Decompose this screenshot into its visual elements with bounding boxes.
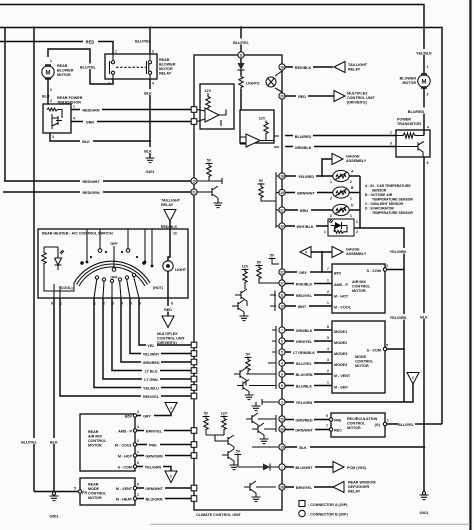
connector squares on left edge (rear motor wires) [191, 428, 197, 434]
wire GRN/RED row to recirculation FRE [285, 419, 331, 421]
sensor A (in-car temperature) [333, 170, 349, 181]
svg-text:ASSEMBLY: ASSEMBLY [346, 252, 367, 256]
pin 21 circle (BRN) [279, 207, 285, 213]
wire LT GRN row (switch pin 2) [103, 298, 191, 379]
pin 17 circle PNK/BLK [279, 280, 285, 286]
svg-text:OFF: OFF [110, 242, 118, 246]
svg-text:1: 1 [350, 197, 352, 201]
label BLU/YEL (relay pin 2 drop) [135, 37, 153, 43]
svg-text:BRN/WHT: BRN/WHT [297, 191, 315, 195]
svg-text:5: 5 [386, 344, 388, 348]
svg-text:9: 9 [281, 372, 283, 376]
svg-text:3: 3 [327, 358, 329, 362]
wire BLK vertical to G501 (switch pin 9) [53, 298, 55, 495]
svg-text:4: 4 [281, 361, 283, 365]
svg-text:6: 6 [281, 384, 283, 388]
svg-text:YEL/BLK: YEL/BLK [416, 51, 432, 55]
switch wiper contact circles [95, 276, 98, 279]
svg-text:MULTIPLEX: MULTIPLEX [157, 332, 178, 336]
pin 25 circle GRN/RED [279, 416, 285, 422]
svg-text:22: 22 [280, 270, 284, 274]
svg-text:5V: 5V [236, 450, 241, 454]
svg-text:2: 2 [330, 197, 332, 201]
wire trunk line 3 (RED feed to relay) [0, 42, 113, 55]
svg-text:BLK: BLK [420, 315, 428, 319]
wire BLU to rear power transistor [47, 79, 49, 104]
legend connector B [299, 510, 305, 516]
svg-text:G401: G401 [419, 511, 428, 515]
arrow 4 (front GRY link) [300, 247, 311, 258]
svg-text:A : IN - CAR TEMPERATURE: A : IN - CAR TEMPERATURE [365, 184, 411, 188]
svg-text:BLK: BLK [299, 446, 307, 450]
svg-text:S - COM: S - COM [367, 349, 381, 353]
svg-text:7: 7 [326, 424, 328, 428]
lamp loop between pins 18 and 20 [275, 71, 282, 92]
svg-text:MODE2: MODE2 [334, 341, 347, 345]
svg-text:1: 1 [327, 381, 329, 385]
pin 16 circle (YEL/RED) [279, 173, 285, 179]
switch rotary arc [74, 261, 150, 283]
svg-text:REAR WINDOW: REAR WINDOW [348, 481, 376, 485]
svg-text:BLU/YEL: BLU/YEL [80, 66, 97, 70]
wire BLU/YEL recirculation row [387, 423, 442, 425]
svg-text:AMS - P: AMS - P [334, 283, 348, 287]
svg-text:YEL/GRN: YEL/GRN [390, 316, 407, 320]
sensor D (evaporator temperature) [333, 204, 349, 215]
svg-text:: CONNECTOR A (20P): : CONNECTOR A (20P) [308, 503, 348, 507]
svg-text:LT GRN/BLK: LT GRN/BLK [293, 351, 315, 355]
pin 5 circle LT GRN/BLK [279, 349, 285, 355]
pin 20 circle (WHT/BLK) [279, 223, 285, 229]
wire PNK/BLK row [285, 283, 332, 285]
wire ORN/BLK row to power transistor pin 3 [285, 146, 396, 148]
svg-text:GRN/RED: GRN/RED [295, 418, 312, 422]
rear mode control motor M3 [80, 478, 135, 505]
svg-text:2: 2 [427, 93, 429, 97]
svg-text:GAUGE: GAUGE [346, 155, 360, 159]
svg-text:RELAY: RELAY [159, 72, 172, 76]
svg-text:1: 1 [350, 214, 352, 218]
svg-text:ORN/WHT: ORN/WHT [145, 487, 163, 491]
svg-text:21: 21 [192, 190, 196, 194]
svg-text:CONTROL: CONTROL [88, 439, 107, 443]
climate control unit box [194, 55, 282, 510]
recirculation control motor [331, 413, 385, 437]
svg-text:M - HOT: M - HOT [334, 295, 349, 299]
wire RED/BLK row to taillight relay [285, 66, 333, 68]
svg-text:(COOL): (COOL) [59, 286, 73, 290]
svg-text:BLK: BLK [144, 92, 152, 96]
wire YEL/BLU row (switch pin 1) [94, 298, 191, 388]
svg-text:MODE3: MODE3 [334, 352, 347, 356]
taillight relay arrow (front) [334, 62, 345, 73]
connector squares on left edge (rear transistor wires) [191, 107, 197, 113]
svg-text:18: 18 [280, 65, 284, 69]
svg-text:2: 2 [152, 50, 154, 54]
svg-text:M - HOT: M - HOT [118, 455, 133, 459]
svg-text:2: 2 [356, 230, 358, 234]
svg-text:BRN/YEL: BRN/YEL [296, 486, 313, 490]
svg-text:BLU: BLU [42, 95, 50, 99]
svg-text:GRY: GRY [143, 414, 151, 418]
svg-text:1: 1 [427, 65, 429, 69]
svg-text:RED/BLK: RED/BLK [295, 66, 312, 70]
svg-text:20: 20 [280, 224, 284, 228]
wire BLK row pin 15 to ground trunk [285, 446, 424, 448]
svg-text:2: 2 [137, 439, 139, 443]
svg-text:5: 5 [427, 161, 429, 165]
svg-text:12V: 12V [259, 117, 266, 121]
svg-text:BLK: BLK [50, 441, 58, 445]
svg-text:4: 4 [305, 251, 307, 255]
svg-text:TAILLIGHT: TAILLIGHT [161, 199, 181, 203]
bulb [266, 77, 276, 87]
svg-text:2: 2 [330, 214, 332, 218]
svg-text:1: 1 [137, 450, 139, 454]
switch wiper lines to pins [94, 277, 139, 299]
gauge assembly arrow (GRY) [311, 251, 332, 253]
PCM (VSS) arrow [333, 462, 344, 473]
svg-text:FRE: FRE [334, 419, 342, 423]
svg-text:GRN: GRN [86, 121, 95, 125]
svg-text:MOTOR: MOTOR [88, 496, 102, 500]
svg-text:11: 11 [280, 293, 284, 297]
rear blower motor relay K1 [105, 54, 157, 79]
svg-text:2: 2 [327, 369, 329, 373]
wire GRY to arrow 4 [137, 414, 171, 416]
svg-text:RED/GRN: RED/GRN [82, 109, 99, 113]
arrow C (to front S-COM line) [165, 471, 177, 483]
pin 21 circle (RED/GRN) [191, 189, 197, 195]
legend connector A [299, 501, 305, 507]
svg-text:YEL/GRN: YEL/GRN [145, 465, 162, 469]
svg-text:GRN/ORN: GRN/ORN [145, 454, 163, 458]
pin 19 circle (BRN/WHT) [279, 189, 285, 195]
sunlight sensor C [328, 219, 354, 236]
svg-text:LT BLU: LT BLU [145, 369, 158, 373]
svg-text:RED: RED [86, 39, 95, 44]
pin 20 circle (RED) [279, 93, 285, 99]
svg-text:BLOWER: BLOWER [400, 77, 417, 81]
svg-text:GAUGE: GAUGE [346, 248, 360, 252]
svg-text:BLU/BLK: BLU/BLK [296, 384, 313, 388]
pin 3 circle YEL/GRN [279, 399, 285, 405]
driver for pin 3 [262, 399, 279, 405]
svg-text:OFF: OFF [110, 276, 118, 280]
svg-text:BLU/RED: BLU/RED [408, 110, 425, 114]
pin 22 circle GRY [279, 269, 285, 275]
svg-text:7: 7 [281, 328, 283, 332]
svg-text:25: 25 [280, 417, 284, 421]
wire RED/GRN row [3, 191, 191, 193]
svg-text:4: 4 [152, 82, 154, 86]
svg-text:BLU/YEL: BLU/YEL [233, 41, 250, 45]
ground G501 [52, 492, 55, 495]
svg-text:BLU/YEL: BLU/YEL [21, 441, 38, 445]
pin 28 circle BRN/YEL [279, 484, 285, 490]
svg-text:PNK: PNK [149, 443, 157, 447]
wire RED/YEL row [285, 294, 332, 296]
wire WHT/BLK row to sunlight sensor C [285, 225, 328, 227]
svg-text:MULTIPLEX: MULTIPLEX [347, 92, 368, 96]
svg-text:12V: 12V [205, 89, 212, 93]
label BLK [143, 89, 155, 95]
svg-text:TRANSISTOR: TRANSISTOR [57, 101, 81, 105]
wire BLU/WHT row to PCM [285, 466, 333, 468]
svg-text:PNK/BLK: PNK/BLK [296, 282, 313, 286]
svg-text:16: 16 [280, 174, 284, 178]
svg-text:BLU/YEL: BLU/YEL [135, 39, 152, 43]
svg-text:YEL/WHT: YEL/WHT [143, 352, 160, 356]
wire BLK from relay pin 4 to ground [149, 79, 151, 158]
svg-text:8: 8 [327, 325, 329, 329]
label YEL/GRN bus [390, 248, 407, 254]
pin 11 circle (top edge) [238, 52, 244, 58]
wire rear blower motor loop to relay pin 3 [48, 49, 113, 84]
wire left long vertical (x=34) [33, 28, 35, 492]
svg-text:GRN/WHT: GRN/WHT [295, 428, 313, 432]
svg-text:BLU/RED: BLU/RED [295, 135, 312, 139]
svg-text:1: 1 [324, 230, 326, 234]
svg-text:REAR POWER: REAR POWER [57, 96, 83, 100]
svg-text:M - VENT: M - VENT [116, 487, 133, 491]
multiplex control unit arrow (switch) [162, 316, 174, 328]
wire GRN/WHT row to recirculation REC [285, 429, 331, 431]
svg-text:YEL/RED: YEL/RED [298, 175, 314, 179]
wire left vertical from trunk 2 (x=5) [4, 28, 6, 182]
svg-text:1: 1 [281, 465, 283, 469]
svg-text:D : EVAPORATOR: D : EVAPORATOR [365, 207, 394, 211]
svg-text:TEMPERATURE SENSOR: TEMPERATURE SENSOR [372, 211, 413, 215]
svg-text:(G): (G) [82, 490, 88, 494]
svg-text:17: 17 [280, 281, 284, 285]
svg-text:5V: 5V [270, 254, 275, 258]
svg-text:DEFOGGER: DEFOGGER [348, 485, 369, 489]
svg-text:BLU/WHT: BLU/WHT [296, 466, 314, 470]
pin 7 circle GRN/BLK [279, 327, 285, 333]
svg-text:MOTOR: MOTOR [352, 289, 366, 293]
svg-text:BLU/YEL: BLU/YEL [398, 423, 415, 427]
svg-text:CONTROL: CONTROL [355, 360, 374, 364]
svg-text:1: 1 [137, 493, 139, 497]
svg-text:AMS - P: AMS - P [118, 430, 132, 434]
svg-text:M - HEAT: M - HEAT [116, 498, 133, 502]
wire trunk line 1 (hot feed to blower motor) [0, 5, 424, 64]
svg-text:B5V: B5V [334, 272, 342, 276]
svg-text:M - DEF: M - DEF [334, 386, 348, 390]
svg-text:MOTOR: MOTOR [355, 364, 369, 368]
svg-text:5V: 5V [204, 412, 209, 416]
svg-text:B : OUTSIDE AIR: B : OUTSIDE AIR [365, 193, 393, 197]
wire BLU/ORN row [137, 498, 191, 500]
pin 15 circle BLK [279, 444, 285, 450]
svg-text:3: 3 [281, 400, 283, 404]
amplifier box 1 (fan control) [200, 84, 234, 129]
svg-text:MODE1: MODE1 [334, 330, 347, 334]
wire YEL row (switch pin 6) [139, 298, 191, 345]
svg-text:4: 4 [427, 126, 429, 130]
svg-text:BRN/YEL: BRN/YEL [146, 429, 163, 433]
svg-text:2: 2 [50, 88, 52, 92]
svg-text:3: 3 [137, 425, 139, 429]
svg-text:5V: 5V [259, 179, 264, 183]
svg-text:10: 10 [173, 232, 177, 236]
svg-text:1: 1 [50, 59, 52, 63]
svg-text:5: 5 [74, 487, 76, 491]
svg-text:(HOT): (HOT) [153, 286, 164, 290]
ground G401 (right) [420, 495, 429, 500]
label RED/BLK [160, 223, 179, 229]
svg-text:M - VENT: M - VENT [334, 374, 351, 378]
svg-text:ASSEMBLY: ASSEMBLY [346, 159, 367, 163]
svg-text:4: 4 [73, 117, 75, 121]
pin 10 circle WHT [279, 303, 285, 309]
label BLU/YEL (rear) [79, 64, 94, 70]
svg-text:8: 8 [171, 302, 173, 306]
svg-text:RED/YEL: RED/YEL [143, 395, 160, 399]
svg-text:6: 6 [137, 483, 139, 487]
svg-text:7: 7 [327, 267, 329, 271]
sensor pins internal bracket [275, 172, 277, 228]
wire ORN/WHT row [137, 487, 191, 489]
rear blower motor M1 [42, 66, 54, 78]
svg-text:MODE: MODE [88, 487, 100, 491]
svg-text:REAR: REAR [57, 64, 68, 68]
svg-text:TEMPERATURE SENSOR: TEMPERATURE SENSOR [372, 198, 413, 202]
sensor B (outside air temperature) [333, 187, 349, 198]
svg-text:BLOWER: BLOWER [57, 69, 74, 73]
svg-text:5V: 5V [257, 261, 262, 265]
svg-text:MOTOR: MOTOR [57, 73, 71, 77]
svg-text:TAILLIGHT: TAILLIGHT [348, 63, 368, 67]
svg-text:CONTROL UNIT: CONTROL UNIT [347, 96, 376, 100]
wire mode motor ground link [34, 491, 78, 493]
svg-text:21: 21 [280, 208, 284, 212]
wire BRN/YEL row [137, 430, 191, 432]
svg-text:RED/WHT: RED/WHT [82, 180, 100, 184]
wire WHT row [285, 305, 332, 307]
svg-text:RELAY: RELAY [161, 203, 174, 207]
svg-text:GRN/YEL: GRN/YEL [296, 340, 313, 344]
scan edge right [469, 0, 471, 530]
svg-text:1: 1 [327, 279, 329, 283]
svg-text:AIR MIX: AIR MIX [88, 435, 102, 439]
diode + pin 1 BLU/WHT [238, 466, 263, 468]
gauge assembly arrow (sensor) [322, 159, 332, 176]
wire RED/WHT row [4, 180, 191, 182]
rear heater - A/C control switch SW1 [38, 229, 188, 298]
svg-text:YEL/BLU: YEL/BLU [143, 386, 159, 390]
svg-text:RED/YEL: RED/YEL [296, 294, 313, 298]
svg-text:POWER: POWER [397, 118, 411, 122]
svg-text:: CONNECTOR B (30P): : CONNECTOR B (30P) [308, 513, 348, 517]
pin 8 circle GRN/YEL [279, 338, 285, 344]
pin 4 circle BLU/YEL [279, 360, 285, 366]
svg-text:CONTROL: CONTROL [88, 492, 107, 496]
svg-text:GRN/RED: GRN/RED [142, 361, 159, 365]
scan edge bottom [150, 524, 470, 525]
svg-text:MODE4: MODE4 [334, 363, 348, 367]
svg-text:BLU/YEL: BLU/YEL [296, 362, 313, 366]
svg-text:26: 26 [280, 427, 284, 431]
svg-text:10: 10 [280, 304, 284, 308]
pin 6 circle BLU/BLK [279, 382, 285, 388]
svg-text:M - COOL: M - COOL [334, 306, 352, 310]
svg-text:5V: 5V [207, 159, 212, 163]
wire YEL/GRN to arrow C [137, 467, 171, 472]
svg-text:CONTROL: CONTROL [347, 422, 366, 426]
pin 11 circle RED/YEL [279, 292, 285, 298]
svg-text:REC: REC [334, 429, 342, 433]
pin 18 circle [279, 64, 285, 70]
resistor LIGHTS [240, 70, 242, 75]
svg-text:YEL/GRN: YEL/GRN [296, 401, 313, 405]
wire GRY row [285, 271, 332, 273]
svg-text:1: 1 [115, 50, 117, 54]
svg-text:B5V: B5V [125, 415, 133, 419]
svg-text:MOTOR: MOTOR [347, 426, 361, 430]
svg-text:LT GRN: LT GRN [144, 378, 158, 382]
air mix control motor (front) [332, 264, 385, 313]
wire YEL/WHT row (switch pin 5) [130, 298, 191, 354]
svg-text:WHT/BLK: WHT/BLK [297, 225, 314, 229]
wire BLU/YEL drop to relay pin 2 [149, 28, 151, 55]
svg-text:12V: 12V [221, 412, 228, 416]
svg-text:RELAY: RELAY [348, 68, 361, 72]
wire BLK from power transistor to G401 [423, 157, 425, 495]
svg-text:BLK: BLK [82, 140, 90, 144]
wire YEL/RED row to sensor A [285, 175, 333, 177]
svg-text:2: 2 [350, 180, 352, 184]
svg-text:9: 9 [51, 302, 53, 306]
svg-text:BRN: BRN [300, 209, 308, 213]
wire BLU/YEL drop to pin 11 [240, 28, 242, 52]
svg-text:BLOWER: BLOWER [159, 63, 176, 67]
power transistor (front) [396, 130, 430, 157]
svg-text:REAR: REAR [88, 430, 99, 434]
svg-text:5V: 5V [246, 353, 251, 357]
arrow 4 (to front GRY line) [165, 403, 177, 415]
labels YEL/GRN + BLK mid [390, 314, 407, 320]
svg-text:2: 2 [137, 410, 139, 414]
svg-text:RED: RED [298, 95, 306, 99]
svg-text:C : SUNLIGHT SENSOR: C : SUNLIGHT SENSOR [365, 202, 404, 206]
arrow C (front) [407, 373, 419, 385]
pin 26 circle GRN/WHT [279, 426, 285, 432]
wire PNK row [137, 444, 191, 446]
switch light bulb [163, 261, 173, 271]
svg-text:2: 2 [327, 290, 329, 294]
svg-text:TRANSISTOR: TRANSISTOR [397, 122, 421, 126]
svg-text:1: 1 [327, 301, 329, 305]
svg-text:S - COM: S - COM [367, 269, 381, 273]
svg-text:REAR: REAR [88, 483, 99, 487]
wire pin 8 RED to multiplex [167, 298, 169, 316]
wire BRN/YEL row to defogger relay [285, 486, 333, 488]
multiplex control unit arrow (front) [334, 91, 345, 102]
wire rows to mode motor [285, 329, 332, 331]
amplifier box 2 (power transistor drive) [240, 110, 274, 143]
svg-text:12V: 12V [242, 265, 249, 269]
wire RED/YEL row (switch pin 1 left) [60, 298, 191, 396]
svg-text:CONTROL UNIT: CONTROL UNIT [157, 337, 186, 341]
rear air mix control motor M2 [80, 414, 135, 471]
wire pin15 internal [197, 178, 222, 184]
rear window defogger relay arrow [333, 482, 344, 493]
svg-text:YEL: YEL [147, 344, 155, 348]
svg-text:5: 5 [327, 336, 329, 340]
drivers for pins 25/26 [246, 413, 258, 425]
